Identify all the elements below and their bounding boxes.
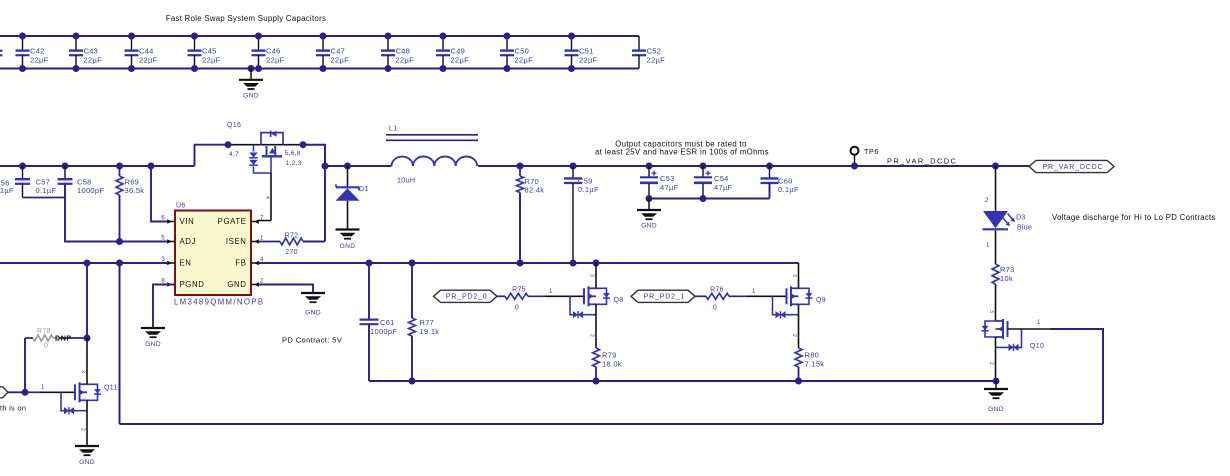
junction output node (992, 163, 999, 170)
svg-text:3: 3 (988, 310, 994, 313)
junction Q10 source ground (993, 378, 1000, 385)
svg-text:270: 270 (285, 249, 298, 256)
capacitor C52 (638, 36, 640, 51)
resistor R70 (519, 166, 521, 176)
junction C53 top (646, 163, 653, 170)
wire bottom rail of cap bank (0, 68, 639, 70)
svg-text:R75: R75 (512, 287, 526, 294)
svg-text:1: 1 (1037, 320, 1041, 326)
svg-text:C49: C49 (451, 46, 466, 55)
svg-text:th is on: th is on (0, 403, 26, 412)
transistor Q8 (583, 288, 585, 304)
resistor R77 (411, 263, 413, 318)
wire Q16 drain to switch node (303, 145, 325, 166)
svg-text:L1: L1 (389, 125, 397, 132)
wire output rail (478, 165, 996, 167)
junction Q11 gate node (22, 389, 29, 396)
junction EN to discharge branch (116, 260, 123, 267)
junction TP6 (851, 163, 858, 170)
wire Q10 source to ground rail (995, 337, 997, 381)
svg-text:C50: C50 (515, 46, 530, 55)
svg-text:Q8: Q8 (614, 297, 624, 304)
wire FB rail (259, 262, 799, 264)
junction DNP node (84, 335, 91, 342)
ground at output caps (648, 199, 650, 210)
U6 pin stub 6 (167, 221, 175, 223)
junction C61 top (366, 260, 373, 267)
transistor Q10 (1007, 321, 1009, 337)
svg-text:1: 1 (752, 289, 756, 295)
resistor R76 (695, 295, 706, 297)
svg-text:22µF: 22µF (331, 56, 350, 65)
svg-text:Q16: Q16 (227, 122, 241, 129)
svg-text:PR_PD2_0: PR_PD2_0 (446, 294, 488, 301)
wire Q10 gate to EN net (1008, 328, 1051, 330)
svg-text:C53: C53 (660, 174, 675, 183)
U6 pin stub 8 (167, 284, 175, 286)
junction C59 top (570, 163, 577, 170)
transistor Q11 (74, 384, 76, 400)
junction at C47 bottom (320, 65, 327, 72)
svg-text:D3: D3 (1016, 214, 1026, 221)
junction C60 top (766, 163, 773, 170)
wire VIN pin branch (151, 166, 167, 222)
U6 pin stub 5 (167, 241, 175, 243)
svg-text:0: 0 (713, 304, 717, 311)
junction C53 bottom (646, 195, 653, 202)
svg-text:C44: C44 (139, 46, 154, 55)
svg-text:C51: C51 (579, 46, 594, 55)
svg-text:DNP: DNP (55, 333, 72, 342)
svg-text:PR_PD2_1: PR_PD2_1 (644, 294, 686, 301)
ground at D1 (336, 228, 360, 230)
capacitor C44 (131, 36, 133, 51)
svg-text:GND: GND (79, 459, 95, 466)
junction at C48 top (385, 33, 392, 40)
wire riser VIN to Q16 (195, 145, 229, 166)
junction at C49 bottom (440, 65, 447, 72)
svg-text:22µF: 22µF (202, 56, 221, 65)
diode D1 schottky (347, 166, 349, 187)
svg-text:GND: GND (988, 406, 1004, 413)
wire tag to Q11 gate (8, 391, 25, 393)
svg-text:1,2,3: 1,2,3 (286, 160, 302, 167)
wire R75 to Q8 gate (528, 295, 545, 297)
capacitor C61 (368, 263, 370, 319)
svg-text:R73: R73 (1000, 265, 1015, 274)
svg-text:C42: C42 (30, 46, 45, 55)
capacitor C42 (22, 36, 24, 51)
resistor R79 (593, 348, 600, 367)
wire Q11 drain (86, 338, 88, 384)
svg-text:C43: C43 (84, 46, 99, 55)
junction at C51 bottom (568, 65, 575, 72)
capacitor C58 (64, 166, 66, 179)
svg-text:3: 3 (589, 274, 595, 277)
wire Q9 source to R80 (798, 304, 800, 348)
svg-text:18.0k: 18.0k (602, 360, 622, 369)
svg-text:Q9: Q9 (816, 297, 826, 304)
svg-text:1: 1 (41, 385, 45, 391)
junction at C50 top (504, 33, 511, 40)
svg-text:10k: 10k (1000, 274, 1013, 283)
ground for cap bank (250, 69, 252, 80)
resistor R78 DNP (25, 337, 33, 339)
capacitor C47 (322, 36, 324, 51)
svg-text:C54: C54 (714, 174, 729, 183)
junction R77 top (409, 260, 416, 267)
svg-text:22µF: 22µF (30, 56, 49, 65)
capacitor C48 (387, 36, 389, 51)
svg-text:FB: FB (235, 259, 246, 268)
svg-text:PR_VAR_DCDC: PR_VAR_DCDC (1043, 164, 1104, 171)
wire C57 bottom to C58 branch (23, 197, 66, 199)
junction R79 bottom (593, 378, 600, 385)
svg-text:D1: D1 (359, 186, 369, 193)
svg-text:R80: R80 (805, 350, 820, 359)
svg-text:1000pF: 1000pF (77, 186, 104, 195)
junction R69 top (116, 163, 123, 170)
svg-text:Q10: Q10 (1030, 343, 1044, 350)
wire EN rail (0, 262, 167, 264)
svg-text:0.1µF: 0.1µF (0, 186, 14, 195)
svg-text:22µF: 22µF (84, 56, 103, 65)
resistor R80 (795, 348, 802, 367)
resistor R75 (497, 295, 505, 297)
ground at main rail (995, 381, 997, 389)
svg-text:22µF: 22µF (515, 56, 534, 65)
capacitor C53 polarized (648, 166, 650, 177)
junction R80 bottom (795, 378, 802, 385)
svg-text:0: 0 (44, 343, 48, 350)
wire PGND to ground (153, 285, 175, 328)
net tag PR_PD2_1 (631, 290, 695, 302)
svg-text:Blue: Blue (1017, 224, 1032, 231)
svg-text:1: 1 (260, 236, 264, 242)
junction at C43 top (73, 33, 80, 40)
wire DNP branch down (24, 338, 26, 392)
wire R76 to Q9 gate (729, 295, 747, 297)
net tag PR_VAR_DCDC (1029, 160, 1114, 172)
svg-text:R72: R72 (285, 232, 299, 239)
junction Q8 drain on FB rail (593, 260, 600, 267)
svg-text:LM3489QMM/NOPB: LM3489QMM/NOPB (174, 297, 264, 306)
junction at C51 top (568, 33, 575, 40)
svg-text:GND: GND (145, 341, 161, 348)
svg-text:GND: GND (340, 243, 356, 250)
svg-text:5: 5 (161, 236, 165, 242)
svg-text:36.5k: 36.5k (125, 186, 145, 195)
svg-text:TP6: TP6 (864, 147, 879, 156)
net tag cut at left edge (0, 387, 8, 398)
svg-text:C45: C45 (202, 46, 217, 55)
wire Q11 source to ground (86, 400, 88, 445)
svg-text:GND: GND (305, 310, 321, 317)
capacitor C45 (194, 36, 196, 51)
junction C59 bottom (570, 260, 577, 267)
svg-text:R77: R77 (420, 318, 435, 327)
capacitor C54 polarized (702, 166, 704, 177)
ground at PGND (141, 327, 165, 329)
capacitor C43 (75, 36, 77, 51)
capacitor C60 (769, 166, 771, 178)
svg-text:82.4k: 82.4k (525, 185, 545, 194)
svg-text:Fast Role Swap System Supply C: Fast Role Swap System Supply Capacitors (166, 14, 326, 23)
svg-text:0: 0 (515, 304, 519, 311)
resistor R72 (259, 241, 280, 243)
junction R77 bottom (409, 378, 416, 385)
junction D1 (344, 163, 351, 170)
svg-text:C52: C52 (647, 46, 662, 55)
wire R73 to Q10 (995, 284, 997, 321)
wire ISEN sense (324, 166, 326, 242)
svg-text:PGATE: PGATE (218, 217, 247, 226)
svg-text:22µF: 22µF (451, 56, 470, 65)
junction at C49 top (440, 33, 447, 40)
svg-text:19.1k: 19.1k (420, 327, 440, 336)
junction at C45 bottom (191, 65, 198, 72)
svg-text:PR_VAR_DCDC: PR_VAR_DCDC (887, 157, 957, 166)
capacitor C51 (571, 36, 573, 51)
wire to output tag (996, 165, 1030, 167)
svg-text:10uH: 10uH (397, 175, 415, 184)
junction at C42 top (19, 33, 26, 40)
wire EN long bottom run (120, 423, 1104, 425)
junction at C47 top (320, 33, 327, 40)
svg-text:7.15k: 7.15k (805, 360, 825, 369)
wire switch node to L1 (325, 165, 392, 167)
svg-text:1: 1 (549, 289, 553, 295)
transistor Q9 (786, 288, 788, 304)
svg-text:U6: U6 (176, 203, 186, 210)
svg-text:GND: GND (641, 222, 657, 229)
junction C54 bottom (700, 195, 707, 202)
wire Q9 drain from FB rail (798, 263, 800, 288)
ground at Q11 (75, 445, 99, 447)
transistor Q16 source-drain line (228, 144, 303, 146)
junction C57 (19, 163, 26, 170)
svg-text:Q11: Q11 (104, 385, 118, 392)
svg-text:22µF: 22µF (266, 56, 285, 65)
svg-text:GND: GND (227, 280, 246, 289)
svg-text:6: 6 (161, 216, 165, 222)
wire C58 bottom to ADJ (65, 184, 167, 242)
wire EN to DNP node (86, 263, 88, 338)
svg-text:at least 25V and have ESR in 1: at least 25V and have ESR in 100s of mOh… (595, 148, 769, 157)
U6 pin stub 7 (251, 221, 259, 223)
svg-text:PGND: PGND (180, 280, 205, 289)
junction at C50 bottom (504, 65, 511, 72)
svg-text:ISEN: ISEN (226, 237, 247, 246)
svg-text:5,6,8: 5,6,8 (285, 150, 301, 157)
svg-text:2: 2 (988, 362, 994, 365)
capacitor C46 (258, 36, 260, 51)
wire GND pin to ground (259, 285, 313, 293)
wire top supply rail (0, 35, 639, 37)
U6 pin stub 3 (167, 262, 175, 264)
junction GND stub on bottom rail (248, 65, 255, 72)
junction Q16 source (225, 141, 232, 148)
op-amp U6 LM3489 buck controller body (175, 211, 251, 296)
capacitor C41 (cut at left edge) (0, 50, 3, 52)
svg-text:0.1µF: 0.1µF (578, 185, 599, 194)
svg-text:0.1µF: 0.1µF (36, 186, 57, 195)
svg-text:22µF: 22µF (579, 56, 598, 65)
wire output to D3 (995, 166, 997, 211)
svg-text:1000pF: 1000pF (370, 327, 397, 336)
junction at C46 top (255, 33, 262, 40)
capacitor C57 (22, 166, 24, 179)
capacitor C50 (506, 36, 508, 51)
svg-text:2: 2 (589, 334, 595, 337)
svg-text:R76: R76 (710, 287, 724, 294)
resistor R73 (992, 264, 999, 284)
svg-text:Voltage discharge for Hi to Lo: Voltage discharge for Hi to Lo PD Contra… (1052, 213, 1216, 222)
svg-text:EN: EN (180, 259, 192, 268)
junction R70 (517, 163, 524, 170)
capacitor C59 (572, 166, 574, 178)
svg-text:0.1µF: 0.1µF (778, 185, 799, 194)
svg-text:2: 2 (791, 334, 797, 337)
svg-text:R79: R79 (602, 350, 617, 359)
wire output cap ground rail (649, 198, 770, 200)
wire D3 to R73 (995, 230, 997, 264)
svg-text:C46: C46 (266, 46, 281, 55)
svg-text:R78: R78 (37, 328, 51, 335)
wire Q16 gate to PGATE (270, 173, 272, 221)
junction R70 bottom (517, 260, 524, 267)
capacitor C49 (442, 36, 444, 51)
svg-text:VIN: VIN (180, 217, 195, 226)
wire VIN rail (0, 165, 195, 167)
svg-text:4: 4 (264, 196, 270, 199)
U6 pin stub 1 (251, 241, 259, 243)
svg-text:1: 1 (986, 243, 990, 249)
junction R69 bottom on ADJ wire (116, 238, 123, 245)
junction at C45 top (191, 33, 198, 40)
resistor R69 (119, 166, 121, 176)
junction C58 (62, 163, 69, 170)
junction switch node (322, 163, 329, 170)
svg-text:PD Contract: 5V: PD Contract: 5V (282, 336, 343, 345)
wire Q8 source to R79 (595, 304, 597, 348)
net tag PR_PD2_0 (434, 290, 498, 302)
junction Q16 drain (300, 141, 307, 148)
junction VIN branch (148, 163, 155, 170)
svg-text:47µF: 47µF (660, 183, 679, 192)
svg-text:ADJ: ADJ (180, 237, 197, 246)
LED D3 (983, 211, 1008, 228)
svg-text:2: 2 (985, 198, 989, 204)
svg-text:C47: C47 (331, 46, 346, 55)
ground at U6 GND pin (301, 292, 325, 294)
svg-text:3: 3 (791, 274, 797, 277)
test point TP6 (854, 155, 856, 166)
svg-text:22µF: 22µF (139, 56, 158, 65)
U6 pin stub 4 (251, 262, 259, 264)
svg-text:22µF: 22µF (396, 56, 415, 65)
svg-text:22µF: 22µF (647, 56, 666, 65)
junction at C46 bottom (255, 65, 262, 72)
transistor Q16 (261, 133, 283, 145)
svg-text:C61: C61 (380, 318, 395, 327)
svg-text:4,7: 4,7 (229, 151, 239, 158)
svg-text:47µF: 47µF (714, 183, 733, 192)
wire Q8 drain (595, 263, 597, 288)
svg-text:GND: GND (243, 93, 259, 100)
svg-text:3: 3 (80, 370, 86, 373)
wire ground rail (369, 380, 996, 382)
junction at C42 bottom (19, 65, 26, 72)
junction at C44 bottom (128, 65, 135, 72)
junction at C43 bottom (73, 65, 80, 72)
junction EN to DNP branch (84, 260, 91, 267)
U6 pin stub 2 (251, 284, 259, 286)
svg-text:C48: C48 (396, 46, 411, 55)
junction at C44 top (128, 33, 135, 40)
junction C54 top (700, 163, 707, 170)
svg-text:2: 2 (80, 428, 86, 431)
junction at C48 bottom (385, 65, 392, 72)
